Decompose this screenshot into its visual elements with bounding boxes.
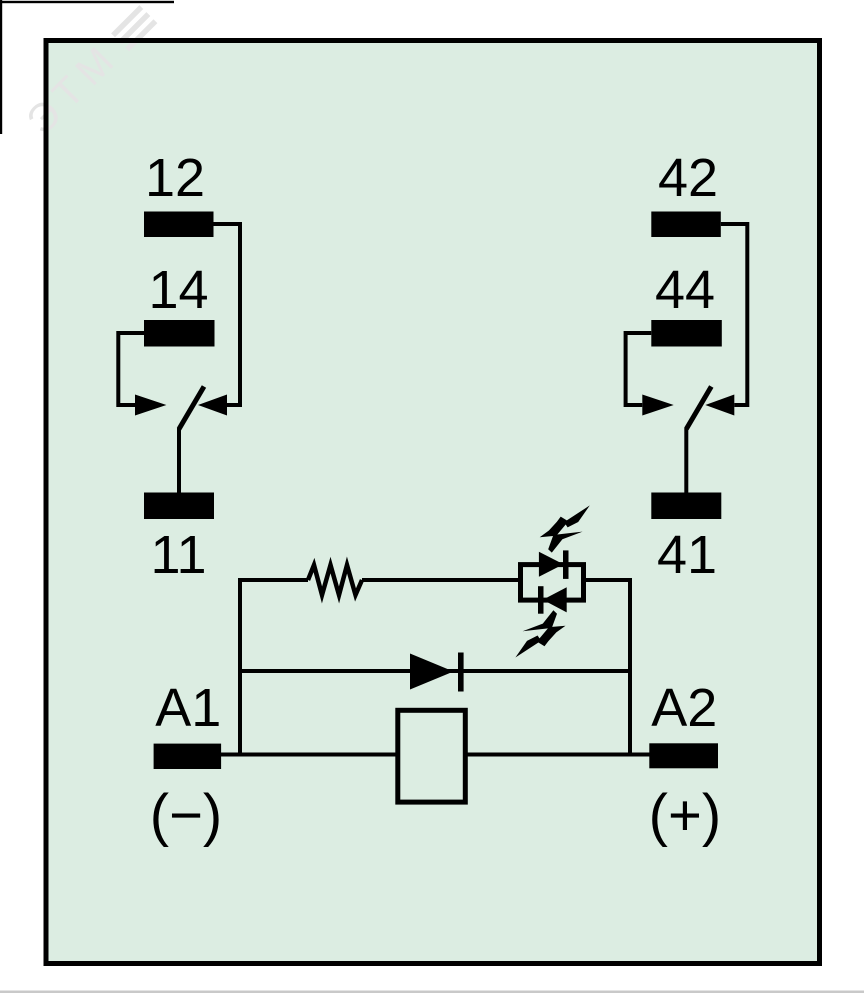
LED 1 cathode bar [563, 550, 569, 579]
bottom wire A1 to coil [221, 753, 398, 757]
svg-text:(+): (+) [649, 783, 722, 848]
terminal pad 44 [651, 320, 722, 347]
wire LED box to right bus [584, 578, 633, 582]
diode V cathode bar [458, 653, 464, 692]
svg-text:14: 14 [148, 260, 208, 320]
diode V triangle [410, 654, 454, 690]
left bus wire [238, 578, 242, 755]
contact lever 41 [686, 387, 711, 430]
terminal pad A2 [649, 743, 718, 768]
svg-text:A1: A1 [155, 678, 221, 738]
arrowhead at 12 wire [198, 395, 227, 416]
arrowhead at 44 wire [642, 395, 673, 416]
svg-text:11: 11 [150, 525, 206, 585]
svg-text:41: 41 [657, 525, 717, 585]
terminal pad 42 [651, 212, 721, 238]
LED 1 triangle [539, 552, 564, 577]
LED 2 triangle [543, 587, 567, 612]
wire resistor to LED box [362, 578, 518, 582]
wire lever to 41 [684, 428, 688, 494]
page corner trim line vertical [0, 0, 2, 134]
bottom wire coil to A2 [466, 753, 650, 757]
top wire left segment [238, 578, 308, 582]
svg-text:A2: A2 [651, 678, 717, 738]
light arrow top [540, 505, 590, 552]
LED 2 cathode bar [538, 586, 544, 614]
bottom separator line [0, 991, 864, 994]
svg-text:12: 12 [145, 148, 205, 208]
coil K [398, 710, 466, 802]
terminal pad 12 [144, 212, 214, 238]
terminal pad A1 [154, 744, 222, 769]
wire from 12 to contact [214, 224, 241, 405]
middle wire with diode [240, 669, 630, 673]
svg-text:44: 44 [655, 260, 715, 320]
wire lever to 11 [177, 428, 181, 494]
wire from 14 to contact [118, 333, 144, 405]
terminal pad 41 [651, 493, 721, 520]
wire from 42 to contact [721, 224, 748, 405]
page corner trim line horizontal [0, 1, 174, 3]
svg-text:42: 42 [658, 148, 718, 208]
terminal pad 11 [144, 493, 214, 520]
resistor R [308, 565, 362, 595]
arrowhead at 42 wire [705, 395, 734, 416]
contact lever 11 [179, 387, 204, 430]
wire from 44 to contact [626, 333, 652, 405]
LED bridge box [521, 565, 584, 601]
svg-text:(−): (−) [150, 783, 223, 848]
arrowhead at 14 wire [135, 395, 166, 416]
watermark ETM logo [18, 0, 163, 143]
right bus wire [628, 578, 632, 755]
light arrow bottom [515, 610, 565, 657]
terminal pad 14 [144, 320, 215, 347]
